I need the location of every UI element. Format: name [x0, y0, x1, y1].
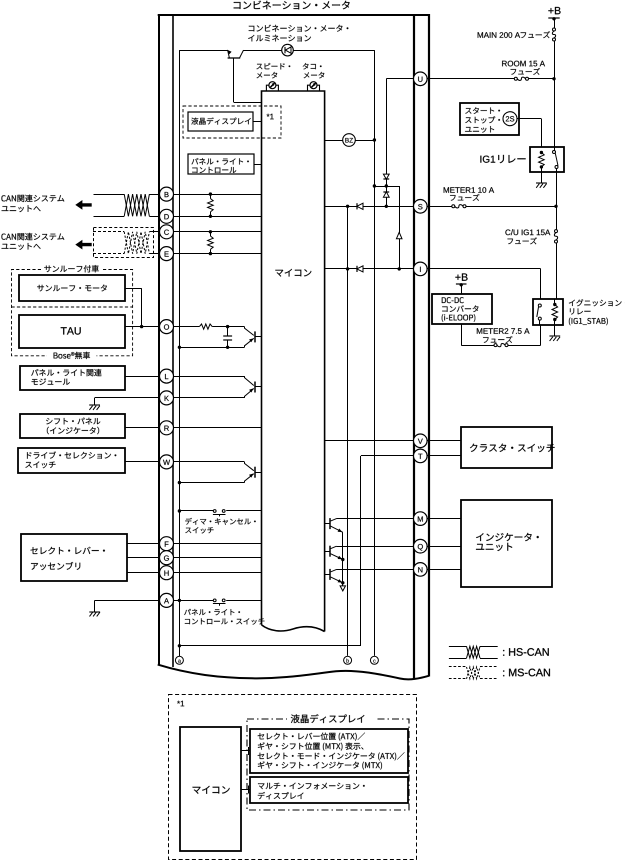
DC-DC converter box [432, 294, 492, 324]
wire C dashed [93, 231, 124, 233]
wire N [337, 569, 415, 571]
diode D2 up [383, 191, 389, 193]
wire T [361, 455, 414, 457]
pin I [414, 262, 428, 276]
label sunroof-equipped [44, 266, 51, 273]
wire W lower [178, 481, 181, 484]
fuse METER1 10A [452, 205, 455, 208]
combination meter frame title [234, 2, 241, 9]
wire illum top [179, 50, 227, 52]
wire N to indicator [427, 569, 461, 571]
label IG1 relay [479, 156, 482, 163]
label fuse METER2 [477, 328, 482, 334]
label panel light module [31, 369, 38, 375]
micon box bottom detail [180, 727, 241, 851]
label drive selection switch [27, 452, 32, 458]
wire W [125, 461, 159, 463]
label panel light control switch [184, 609, 191, 615]
transistor Q-Q [325, 551, 331, 553]
+B supply DC-DC [455, 275, 460, 280]
wire Q [337, 546, 415, 548]
pin S [414, 200, 428, 214]
wire S [325, 206, 414, 208]
wire METER2 [461, 324, 463, 345]
wire T vertical [360, 456, 362, 646]
node n186 [385, 184, 388, 187]
wire LCD to micon [253, 121, 262, 123]
label *1 top [267, 114, 270, 117]
wire Q to indicator [427, 546, 461, 548]
pin T [414, 449, 428, 463]
sunroof motor box [19, 275, 125, 301]
label sunroof motor [37, 285, 44, 292]
label LCD display [191, 118, 198, 125]
wire V to cluster [427, 440, 461, 442]
relay ignition box [533, 299, 563, 325]
wire TAU to O [125, 326, 159, 328]
shift panel box [20, 414, 125, 438]
wire bottom horizontal [178, 644, 181, 647]
wire O lower [178, 346, 181, 349]
arrow to CAN 2 [75, 240, 91, 250]
ground relay ignition [554, 325, 556, 337]
start stop unit box [460, 103, 519, 135]
label combination meter illumination [249, 26, 255, 32]
ground A [94, 600, 96, 611]
tachometer symbol [308, 85, 320, 91]
fuse C/U IG1 15A [555, 230, 558, 233]
label ignition relay [569, 300, 575, 306]
legend MS-CAN symbol [449, 666, 467, 668]
wire U [386, 78, 414, 80]
note box dashed *1 [169, 695, 417, 860]
label panel light control [191, 158, 198, 164]
wire lamp to node [244, 50, 375, 52]
transistor Q-N [325, 574, 331, 576]
drive selection switch box [18, 448, 125, 473]
dashed box MS-CAN [94, 228, 154, 258]
pin B [160, 187, 174, 201]
label cluster switch [470, 444, 477, 452]
node c [370, 656, 378, 664]
pin E [160, 247, 174, 261]
wire V [325, 440, 414, 442]
wire sunroof motor to junction [125, 288, 141, 290]
relay IG1 coil [540, 151, 543, 154]
wire H [127, 572, 160, 574]
transistor Q-O [245, 327, 254, 336]
connector bar left outer [158, 14, 160, 665]
indicator unit box [461, 500, 552, 587]
label fuse C/U IG1 [505, 230, 510, 236]
HS-CAN twisted pair [124, 194, 149, 216]
switch panel light control [213, 599, 216, 602]
ground relay IG1 [541, 172, 543, 183]
wire illum common vertical [179, 50, 181, 646]
ground K [94, 398, 96, 405]
fuse MAIN 200A [553, 28, 556, 31]
label DC-DC converter [442, 297, 446, 303]
pin Q [414, 539, 428, 553]
wire B [94, 194, 125, 196]
label fuse MAIN [478, 32, 483, 38]
wire R to node [212, 326, 227, 328]
wire O to RC [174, 326, 200, 328]
speedometer symbol [266, 85, 278, 91]
label *1 bottom [177, 701, 180, 704]
frame bottom wavy edge [158, 665, 429, 680]
panel light control box [188, 154, 254, 174]
LCD content box 2 [250, 777, 408, 803]
wire R [125, 427, 159, 429]
transistor chain vertical [342, 532, 344, 586]
wire micon to LCD2 [241, 789, 250, 791]
label Bose not-equipped [54, 353, 58, 359]
wire K [95, 397, 160, 399]
pin F [160, 537, 174, 551]
label tacho meter [303, 63, 309, 69]
label start stop unit [465, 108, 471, 114]
wire A [95, 600, 214, 602]
MS-CAN twisted pair dashed [124, 232, 149, 254]
wire micon to BZ [325, 140, 343, 142]
fuse ROOM 15A [514, 77, 517, 80]
pin G [160, 551, 174, 565]
capacitor C-O [227, 327, 229, 336]
label CAN system units 1 [1, 195, 5, 201]
wire M to indicator [427, 518, 461, 520]
cluster switch box [461, 427, 552, 468]
wire dimmer [178, 509, 181, 512]
pin C [160, 225, 174, 239]
legend HS-CAN symbol [449, 646, 467, 648]
relay IG1 contact [554, 147, 556, 151]
wire b vertical [347, 206, 349, 656]
wire BZ to node [355, 140, 374, 142]
node b [344, 656, 352, 664]
pin K [160, 391, 174, 405]
dashed box *1 (LCD) [183, 106, 281, 138]
label dimmer cancel switch [185, 518, 192, 525]
pin V [414, 434, 428, 448]
micon label [275, 270, 283, 277]
arrow to CAN 1 [75, 200, 91, 210]
resistor R-can1 [209, 192, 212, 195]
switch dimmer cancel [213, 510, 216, 513]
pin D [160, 209, 174, 223]
diode D1 down [383, 174, 389, 179]
wire U vertical [386, 79, 388, 174]
wire I to relay [427, 268, 541, 270]
pin U [414, 72, 428, 86]
LCD display box [188, 112, 253, 131]
transistor Q-M [325, 523, 331, 525]
frame top edge [158, 14, 430, 16]
legend HS-CAN text [503, 650, 504, 656]
select lever assembly box [21, 534, 127, 581]
wire panel-light-control to micon [254, 164, 262, 166]
panel light module box [20, 366, 125, 390]
wire +B continue [556, 206, 558, 229]
wire M [337, 518, 415, 520]
node a [179, 646, 181, 657]
label speed meter [256, 64, 262, 70]
connector bar left inner [172, 14, 174, 667]
label fuse METER1 [444, 187, 449, 193]
transistor illumination driver [228, 50, 230, 58]
label indicator unit [476, 533, 483, 541]
label TAU [61, 327, 67, 334]
wire F [127, 543, 160, 545]
wire I-arrow vertical [399, 186, 401, 269]
wire L [125, 376, 159, 378]
relay ignition coil [553, 303, 556, 306]
fuse METER2 7.5A [494, 344, 497, 347]
transistor Q-W [245, 462, 254, 471]
connector bar right line2 [428, 14, 430, 677]
dashed box sunroof-equipped [12, 270, 133, 356]
pin L [160, 369, 174, 383]
label select lever assembly [31, 547, 38, 554]
diode D4 series I [356, 266, 358, 272]
+B supply top [548, 8, 553, 13]
wire D [94, 216, 125, 218]
connector 2S [503, 112, 517, 126]
wire node vertical c-line [374, 51, 376, 656]
pin A [160, 593, 174, 607]
label micon bottom [193, 787, 201, 794]
resistor R-can2 [209, 230, 212, 233]
pin H [160, 566, 174, 580]
LCD chain-dash box [247, 719, 409, 810]
wire micon to LCD1 [241, 750, 250, 752]
connector bar right line1 [413, 14, 415, 680]
label fuse ROOM [502, 61, 507, 67]
relay IG1 box [530, 147, 564, 172]
pin N [414, 563, 428, 577]
wire I [325, 268, 414, 270]
transistor Q-L [245, 376, 254, 385]
wire G [127, 557, 160, 559]
wire S to +B [427, 206, 452, 208]
wire U to +B [427, 78, 514, 80]
pin R [160, 421, 174, 435]
label LCD content 1 [258, 733, 265, 739]
relay ignition contact [538, 304, 541, 307]
label LCD display bottom [287, 714, 375, 725]
wire E dashed [93, 253, 124, 255]
pin W [160, 455, 174, 469]
illumination lamp symbol [282, 44, 294, 56]
pin O [160, 320, 174, 334]
resistor R-O [199, 324, 212, 329]
buzzer BZ [343, 134, 356, 147]
TAU box [19, 315, 125, 348]
label CAN system units 2 [1, 234, 5, 240]
wire 2S to relay [517, 118, 541, 120]
pin M [414, 512, 428, 526]
label LCD content 2 [258, 783, 265, 789]
legend MS-CAN text [503, 670, 504, 676]
LCD content box 1 [250, 729, 408, 773]
label shift panel [46, 418, 52, 424]
wire T to cluster [427, 455, 461, 457]
micon box (マイコン) [262, 91, 325, 632]
diode D3 series S [356, 203, 358, 209]
